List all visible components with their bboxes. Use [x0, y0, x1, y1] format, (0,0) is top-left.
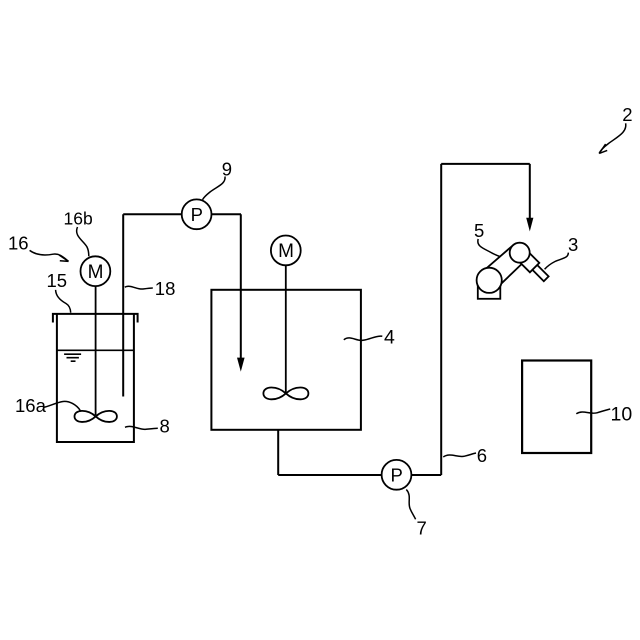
svg-text:7: 7: [417, 518, 427, 539]
svg-text:16: 16: [8, 233, 29, 254]
svg-text:P: P: [391, 465, 403, 486]
svg-text:2: 2: [622, 104, 632, 125]
svg-text:10: 10: [611, 403, 633, 425]
svg-text:M: M: [88, 262, 104, 283]
svg-text:6: 6: [477, 445, 487, 466]
svg-text:16a: 16a: [15, 395, 47, 416]
svg-text:3: 3: [568, 234, 578, 255]
svg-text:P: P: [191, 204, 203, 225]
svg-text:16b: 16b: [64, 209, 93, 229]
svg-text:M: M: [278, 241, 294, 262]
svg-text:5: 5: [474, 220, 484, 241]
svg-text:15: 15: [47, 270, 68, 291]
svg-text:4: 4: [384, 326, 395, 348]
svg-text:18: 18: [155, 278, 176, 299]
svg-text:9: 9: [222, 159, 232, 180]
svg-text:8: 8: [160, 416, 170, 437]
